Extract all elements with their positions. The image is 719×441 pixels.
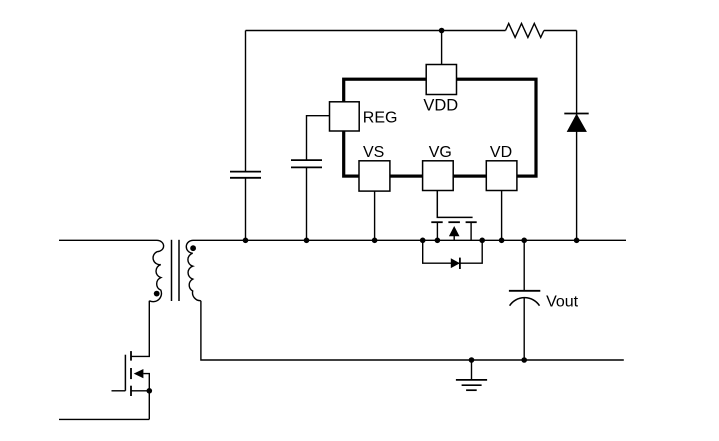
transformer T1 primary phase dot	[154, 291, 160, 297]
svg-text:VS: VS	[363, 144, 384, 161]
pin box VD	[486, 161, 517, 191]
junction dot Q2 source	[435, 238, 441, 244]
wire secondary bottom to ground rail	[201, 301, 624, 360]
transistor Q1 body arrow	[134, 369, 150, 391]
transistor Q1 gate line	[124, 355, 126, 391]
wire diode branch vertical	[576, 31, 578, 241]
wire C1 branch upper	[245, 31, 247, 172]
junction dot C2 rail	[304, 238, 310, 244]
pin box REG	[330, 102, 360, 131]
wire Q1 source lead	[131, 391, 149, 420]
wire VS pin lead	[374, 191, 376, 240]
junction dot VDD top	[439, 28, 445, 34]
ground	[456, 360, 487, 390]
diode D2	[451, 258, 460, 269]
svg-text:VD: VD	[490, 144, 512, 161]
wire VD pin lead	[501, 191, 503, 241]
svg-text:VG: VG	[429, 144, 452, 161]
junction dot C1 rail	[243, 238, 249, 244]
wire top rail	[246, 30, 506, 32]
controller U1 body	[344, 79, 536, 176]
capacitor C1	[230, 172, 261, 178]
svg-text:Vout: Vout	[546, 294, 579, 311]
capacitor C2	[291, 160, 322, 167]
capacitor Cout	[509, 291, 540, 306]
pin box VS	[359, 161, 390, 191]
transformer T1 core	[172, 240, 180, 301]
resistor R1	[506, 23, 544, 37]
wire resistor to diode branch	[544, 30, 577, 32]
wire Q2 drain lead	[470, 222, 472, 240]
transistor Q2 body arrow	[449, 226, 460, 240]
wire C2 branch lower	[306, 167, 308, 240]
pin box VG	[423, 161, 454, 191]
transformer T1 secondary phase dot	[190, 245, 196, 251]
wire Q1 drain to primary	[131, 301, 149, 357]
junction dot D2 left	[420, 238, 426, 244]
transistor Q2 channel bars	[431, 221, 476, 223]
transformer T1 primary winding with left rail	[59, 240, 164, 301]
wire C2 to REG	[307, 116, 330, 160]
pin box VDD	[426, 65, 456, 95]
capacitor Cout branch lower	[523, 298, 525, 360]
junction dot Cout bottom	[521, 357, 527, 363]
svg-text:VDD: VDD	[423, 97, 458, 115]
wire Q2 source lead	[436, 222, 438, 240]
transformer T1 secondary winding with right rail	[186, 240, 626, 300]
transistor Q1 gate lead	[112, 390, 126, 392]
junction dot VD rail	[499, 238, 505, 244]
wire body diode D2 loop	[423, 240, 483, 263]
junction dot Cout rail	[521, 238, 527, 244]
wire C1 branch lower	[245, 178, 247, 241]
junction dot VS rail	[372, 238, 378, 244]
svg-text:REG: REG	[363, 110, 398, 127]
junction dot Q1 source	[147, 388, 153, 394]
junction dot ground	[469, 357, 475, 363]
wire VDD pin lead	[441, 31, 443, 65]
diode D1	[564, 114, 588, 132]
wire bottom left rail	[59, 418, 149, 420]
junction dot D1 rail	[574, 238, 580, 244]
junction dot D2 right	[479, 238, 485, 244]
wire VG pin lead and Q2 gate	[437, 191, 472, 218]
capacitor Cout branch upper	[523, 240, 525, 290]
transistor Q1 channel bars	[130, 351, 132, 396]
